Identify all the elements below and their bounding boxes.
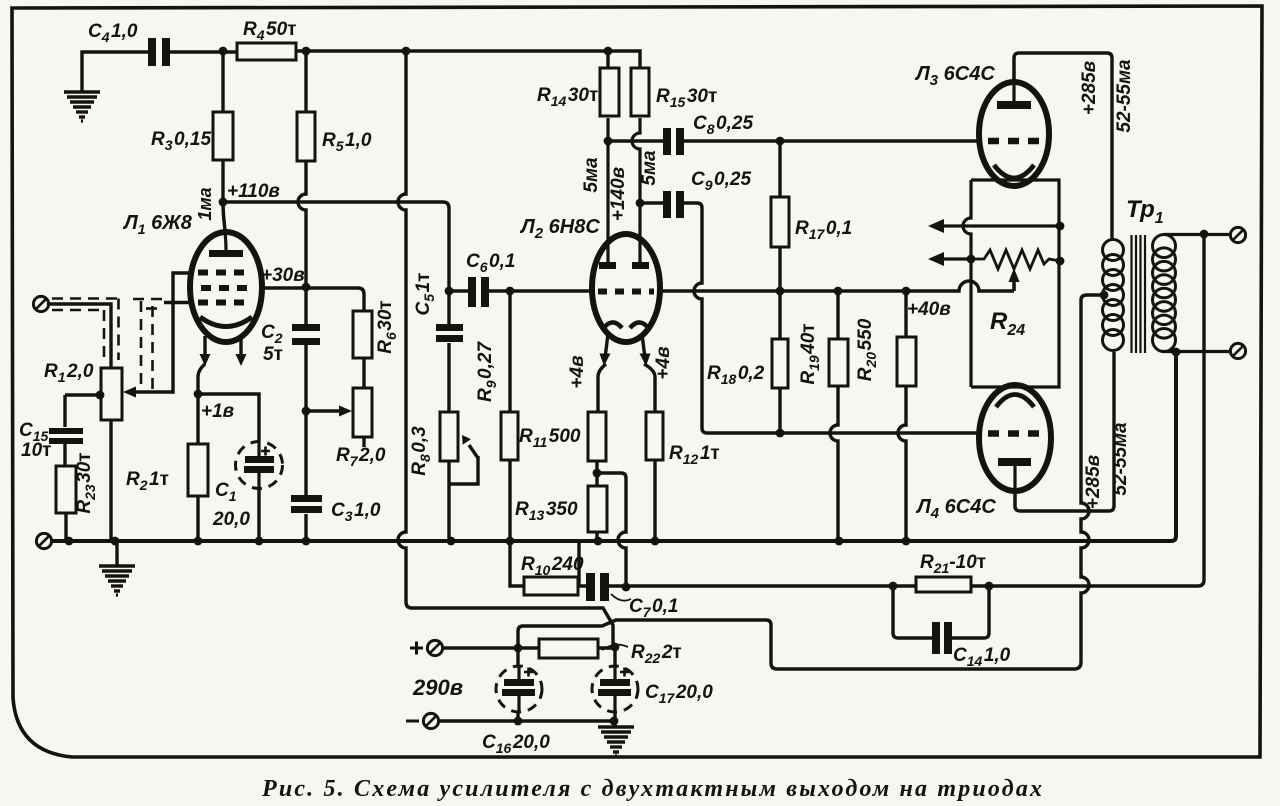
svg-text:R450т: R450т bbox=[243, 19, 296, 43]
svg-text:+30в: +30в bbox=[261, 265, 305, 286]
svg-text:R21-10т: R21-10т bbox=[920, 552, 986, 576]
svg-text:+4в: +4в bbox=[653, 346, 674, 379]
svg-text:Тр1: Тр1 bbox=[1126, 196, 1164, 227]
svg-text:+285в: +285в bbox=[1083, 455, 1104, 509]
svg-text:290в: 290в bbox=[412, 675, 463, 700]
svg-text:+1в: +1в bbox=[201, 401, 234, 422]
svg-text:C51т: C51т bbox=[413, 273, 437, 316]
svg-text:R170,1: R170,1 bbox=[795, 218, 852, 242]
svg-text:Л3 6С4С: Л3 6С4С bbox=[914, 63, 995, 89]
svg-text:C60,1: C60,1 bbox=[466, 251, 515, 275]
svg-text:R21т: R21т bbox=[126, 469, 169, 493]
svg-text:R11500: R11500 bbox=[519, 426, 581, 450]
svg-text:C80,25: C80,25 bbox=[693, 113, 753, 137]
svg-text:R24: R24 bbox=[990, 308, 1025, 339]
svg-text:R72,0: R72,0 bbox=[336, 445, 386, 469]
svg-text:52-55ма: 52-55ма bbox=[1114, 59, 1135, 133]
svg-text:5т: 5т bbox=[263, 344, 283, 365]
svg-text:5ма: 5ма bbox=[639, 150, 660, 186]
svg-text:10т: 10т bbox=[21, 440, 51, 461]
svg-text:R1430т: R1430т bbox=[537, 85, 598, 109]
svg-text:C1: C1 bbox=[215, 480, 237, 504]
svg-text:Рис. 5. Схема усилителя с двух: Рис. 5. Схема усилителя с двухтактным вы… bbox=[261, 776, 1042, 802]
svg-text:R1940т: R1940т bbox=[798, 323, 822, 384]
svg-text:R51,0: R51,0 bbox=[322, 130, 372, 154]
svg-text:R630т: R630т bbox=[375, 300, 399, 353]
svg-text:+40в: +40в bbox=[907, 299, 951, 320]
svg-text:+140в: +140в bbox=[608, 167, 629, 221]
svg-text:+4в: +4в bbox=[567, 355, 588, 388]
svg-text:R1530т: R1530т bbox=[656, 86, 717, 110]
svg-text:+285в: +285в bbox=[1079, 61, 1100, 115]
svg-text:C1720,0: C1720,0 bbox=[645, 682, 713, 706]
svg-text:R20550: R20550 bbox=[855, 318, 879, 381]
svg-text:R80,3: R80,3 bbox=[409, 426, 433, 476]
svg-text:1ма: 1ма bbox=[195, 187, 215, 220]
svg-text:R2330т: R2330т bbox=[74, 452, 98, 513]
svg-text:5ма: 5ма bbox=[581, 157, 602, 193]
svg-text:R180,2: R180,2 bbox=[707, 363, 765, 387]
svg-text:C31,0: C31,0 bbox=[331, 500, 381, 524]
svg-text:R12,0: R12,0 bbox=[44, 361, 94, 385]
svg-text:20,0: 20,0 bbox=[212, 509, 250, 530]
svg-text:R121т: R121т bbox=[669, 443, 720, 467]
svg-text:Л2 6Н8С: Л2 6Н8С bbox=[519, 216, 600, 242]
svg-text:C141,0: C141,0 bbox=[953, 645, 1011, 669]
svg-text:C2: C2 bbox=[261, 322, 283, 346]
svg-text:C90,25: C90,25 bbox=[691, 169, 751, 193]
svg-text:R222т: R222т bbox=[631, 642, 682, 666]
svg-text:R10240: R10240 bbox=[521, 554, 584, 578]
svg-text:C1620,0: C1620,0 bbox=[482, 732, 550, 756]
svg-text:R30,15: R30,15 bbox=[151, 129, 211, 153]
svg-text:+110в: +110в bbox=[227, 181, 280, 202]
svg-text:R13350: R13350 bbox=[515, 499, 578, 523]
svg-text:C41,0: C41,0 bbox=[88, 21, 138, 45]
svg-text:Л1 6Ж8: Л1 6Ж8 bbox=[122, 212, 193, 237]
svg-text:C70,1: C70,1 bbox=[629, 596, 678, 620]
svg-text:Л4 6С4С: Л4 6С4С bbox=[915, 496, 996, 522]
svg-text:R90,27: R90,27 bbox=[475, 341, 499, 402]
svg-text:52-55ма: 52-55ма bbox=[1110, 422, 1131, 496]
